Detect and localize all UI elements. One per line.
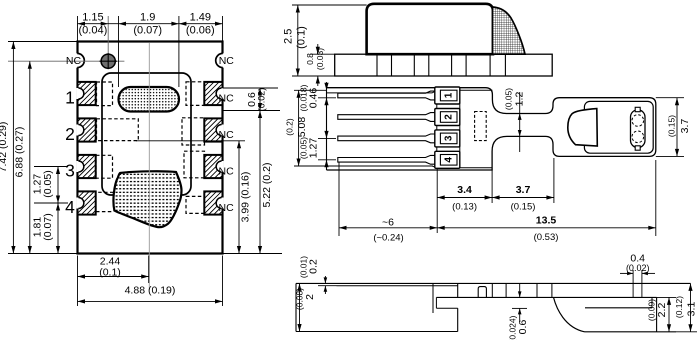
hidden lead finger pin 3 (dashed) <box>96 155 113 178</box>
pin 3 pad (hatched) <box>78 155 96 178</box>
svg-text:3: 3 <box>444 135 455 141</box>
side view lead frame strip <box>335 54 553 76</box>
svg-text:~6: ~6 <box>382 216 394 228</box>
lead 3 <box>338 134 435 143</box>
dim 1.2 (0.05) neck <box>519 92 521 152</box>
dim 2.44 (0.1) bottom <box>77 256 79 307</box>
svg-text:5.08: 5.08 <box>296 117 308 138</box>
svg-text:(0.12): (0.12) <box>674 296 684 318</box>
svg-text:2.5: 2.5 <box>282 29 294 44</box>
svg-text:(0.13): (0.13) <box>452 201 477 212</box>
dim 1.27 (0.05) left <box>34 166 68 168</box>
lead frame left edge <box>326 88 328 170</box>
svg-text:0.8: 0.8 <box>305 53 315 65</box>
svg-text:2: 2 <box>304 294 316 300</box>
dim 1.81 (0.07) left <box>57 203 59 254</box>
svg-text:1.2: 1.2 <box>514 92 526 107</box>
lead tip hidden line <box>432 283 434 313</box>
hidden lead finger NC row3 right (dashed) <box>184 151 205 178</box>
svg-text:(0.06): (0.06) <box>186 24 215 36</box>
lead 1 <box>338 91 435 100</box>
svg-text:6.88 (0.27): 6.88 (0.27) <box>14 127 26 178</box>
sensor die dome <box>568 109 598 146</box>
NC notch row 1 right <box>216 88 224 99</box>
svg-text:2.2: 2.2 <box>656 303 668 318</box>
dim 3.7 (0.15) blade height <box>656 97 684 99</box>
dim 0.4 (0.02) <box>632 270 634 297</box>
dim 1.15 (0.04) top <box>77 16 79 42</box>
svg-text:(~0.24): (~0.24) <box>373 232 403 243</box>
dim 5.08 (0.2) frame <box>294 89 327 91</box>
lead 2 <box>338 113 435 122</box>
svg-text:(0.05): (0.05) <box>42 170 54 197</box>
NC notch row 3 right <box>216 161 224 172</box>
pin 4 notch <box>76 198 84 209</box>
svg-text:(0.07): (0.07) <box>42 213 54 240</box>
strip step line (0.2) <box>337 285 458 287</box>
bond pad 4 <box>435 151 460 168</box>
hidden lead finger pin 2 (dashed) <box>97 119 139 141</box>
dim 3.4 (0.13) <box>436 168 438 233</box>
mold body (side view) <box>367 4 493 54</box>
svg-text:(0.1): (0.1) <box>295 26 307 49</box>
svg-text:(0.04): (0.04) <box>79 24 108 36</box>
svg-text:1.27: 1.27 <box>308 138 320 159</box>
concentrator blob (dotted grid fill) <box>113 171 181 227</box>
svg-text:(0.03): (0.03) <box>315 48 325 70</box>
svg-text:NC: NC <box>219 92 235 104</box>
lead frame outline top <box>327 88 656 170</box>
dim 0.46 (0.018) frame <box>318 97 336 99</box>
downset bend curve <box>554 297 585 331</box>
svg-text:1.49: 1.49 <box>190 11 211 23</box>
dim 7.42 (0.29) left <box>8 41 78 43</box>
svg-text:1: 1 <box>65 87 75 107</box>
svg-text:NC: NC <box>219 129 235 141</box>
svg-text:(0.05): (0.05) <box>503 88 513 110</box>
tab on strip <box>478 287 486 298</box>
svg-text:3.99 (0.16): 3.99 (0.16) <box>240 172 252 223</box>
slot holes (dashed circles) <box>632 115 644 127</box>
dim 2.5 (0.1) side view <box>292 4 367 6</box>
hidden lead finger pin 1 (dashed) <box>97 82 113 106</box>
dim 2.2 (0.09) <box>657 296 676 298</box>
svg-text:(0.53): (0.53) <box>534 232 559 243</box>
svg-text:1.9: 1.9 <box>140 11 155 23</box>
svg-text:(0.2): (0.2) <box>284 118 294 136</box>
svg-text:0.46: 0.46 <box>308 88 320 109</box>
top rail inner edge <box>327 92 433 94</box>
die (hatched stadium) <box>119 87 180 112</box>
svg-text:(0.15): (0.15) <box>666 115 676 137</box>
dim 3.7 (0.15) bottom <box>553 158 555 203</box>
package body outline (top view) <box>78 42 223 254</box>
bottom rail inner edge <box>327 165 433 167</box>
dim 3.1 (0.12) <box>657 331 697 333</box>
hidden lead finger NC row2 right (dashed) <box>182 118 205 145</box>
dim 4.88 (0.19) bottom <box>222 256 224 307</box>
lead cross-section ticks <box>376 54 378 76</box>
NC notch row 2 right <box>216 125 224 136</box>
dim 0.8 (0.03) side view <box>310 53 335 55</box>
slot capsule <box>631 110 646 148</box>
svg-text:(0.02): (0.02) <box>256 88 266 112</box>
svg-text:NC: NC <box>219 55 235 67</box>
lead 4 <box>338 155 435 164</box>
svg-text:(0.024): (0.024) <box>507 315 517 340</box>
svg-text:1.15: 1.15 <box>82 11 103 23</box>
hidden die position (dashed) <box>475 112 487 141</box>
vertical centerline of package <box>148 43 150 290</box>
dim 0.6 (0.02) right <box>223 87 279 89</box>
svg-text:(0.1): (0.1) <box>99 267 121 279</box>
strip bottom edge <box>436 296 656 298</box>
top-right NC notch <box>216 53 224 67</box>
top-left NC notch <box>76 53 84 67</box>
svg-text:4.88 (0.19): 4.88 (0.19) <box>125 285 176 297</box>
blade inner pad outline <box>584 101 653 153</box>
slot end tabs <box>635 107 640 111</box>
dim 0.2 (0.01) <box>318 285 337 287</box>
svg-text:NC: NC <box>219 202 235 214</box>
pin1 indicator dot (gray circle with cross) <box>8 60 124 62</box>
pin 4 pad (hatched) <box>78 191 96 214</box>
pin 3 notch <box>76 161 84 172</box>
svg-text:1: 1 <box>444 92 455 98</box>
svg-text:4: 4 <box>65 197 75 217</box>
tie bar line right of pads <box>459 90 461 168</box>
NC pad row 3 right (hatched) <box>204 155 222 178</box>
dim 13.5 (0.53) <box>655 160 657 236</box>
svg-text:(0.07): (0.07) <box>133 24 162 36</box>
internal lead frame outline <box>102 73 191 195</box>
svg-text:3.7: 3.7 <box>679 119 691 134</box>
svg-text:3.4: 3.4 <box>457 184 472 196</box>
tie bar line left of pads <box>436 90 438 168</box>
blade (dropped pad) <box>585 307 652 309</box>
svg-text:2: 2 <box>444 114 455 120</box>
svg-text:(0.09): (0.09) <box>646 299 656 321</box>
dim 2 (0.08) <box>299 283 301 331</box>
bond pad 3 <box>435 130 460 147</box>
mold block left <box>295 283 297 331</box>
NC notch row 4 right <box>216 198 224 209</box>
svg-text:NC: NC <box>66 55 82 67</box>
pin 2 notch <box>76 125 84 136</box>
svg-text:0.6: 0.6 <box>517 320 529 335</box>
svg-text:0.2: 0.2 <box>308 259 320 274</box>
svg-text:13.5: 13.5 <box>536 214 557 226</box>
strip ticks <box>491 283 493 297</box>
svg-text:3: 3 <box>65 160 75 180</box>
svg-text:(0.15): (0.15) <box>511 201 536 212</box>
svg-text:2: 2 <box>65 124 75 144</box>
dim 1.27 (0.05) frame <box>318 137 336 139</box>
hidden lead finger NC row4 right (dashed) <box>186 196 205 213</box>
bond pad 1 <box>435 87 460 104</box>
svg-text:4: 4 <box>444 157 455 163</box>
svg-text:NC: NC <box>219 165 235 177</box>
pin 1 notch <box>76 88 84 99</box>
bond pad 2 <box>435 109 460 126</box>
dim 3.99 (0.16) right <box>136 140 245 142</box>
dim 0.6 (0.024) <box>512 307 527 309</box>
NC pad row 4 right (hatched) <box>204 191 222 214</box>
pin 1 pad (hatched) <box>78 82 96 105</box>
dim 5.22 (0.2) right <box>223 253 283 255</box>
pin 2 pad (hatched) <box>78 118 96 141</box>
NC pad row 2 right (hatched) <box>204 118 222 141</box>
svg-text:3.7: 3.7 <box>516 184 531 196</box>
svg-text:5.22 (0.2): 5.22 (0.2) <box>261 163 273 208</box>
svg-text:(0.08): (0.08) <box>294 288 304 310</box>
dim ~6 (~0.24) <box>338 162 340 236</box>
mold gate blob (cross-hatched) <box>493 7 526 54</box>
svg-text:3.1: 3.1 <box>686 302 698 317</box>
hidden lead finger NC row1 right (dashed) <box>186 82 205 106</box>
hidden lead finger pin 4 (dashed) <box>96 192 114 211</box>
dim 6.88 (0.27) left <box>29 61 31 253</box>
NC pad row 1 right (hatched) <box>204 82 222 105</box>
bottom side view: top edge <box>296 282 691 284</box>
mold foot notch <box>435 297 437 308</box>
svg-text:(0.02): (0.02) <box>626 263 650 273</box>
svg-text:7.42 (0.29): 7.42 (0.29) <box>0 122 9 173</box>
